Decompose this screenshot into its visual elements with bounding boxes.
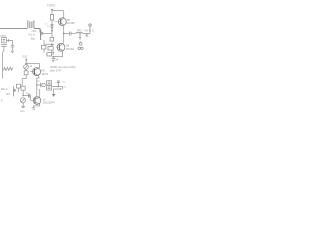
svg-text:+9V D.C.: +9V D.C. <box>84 30 95 33</box>
svg-text:BaL in: BaL in <box>1 88 8 91</box>
svg-text:RFC: RFC <box>77 30 82 33</box>
svg-text:XTAL: XTAL <box>0 35 7 38</box>
svg-text:Crv In: Crv In <box>28 33 35 36</box>
svg-text:vom: vom <box>20 110 25 113</box>
svg-text:40673: 40673 <box>41 73 48 76</box>
svg-text:G: G <box>1 99 3 103</box>
svg-text:BaL: BaL <box>31 38 36 41</box>
svg-text:MO184: MO184 <box>66 48 75 51</box>
svg-text:OSC: OSC <box>22 56 27 59</box>
svg-text:after 1747: after 1747 <box>50 69 62 72</box>
svg-text:dn2: dn2 <box>6 93 11 96</box>
svg-text:(w): (w) <box>51 101 55 104</box>
svg-text:MO186: MO186 <box>67 22 76 25</box>
svg-text:+VCC: +VCC <box>47 3 56 7</box>
